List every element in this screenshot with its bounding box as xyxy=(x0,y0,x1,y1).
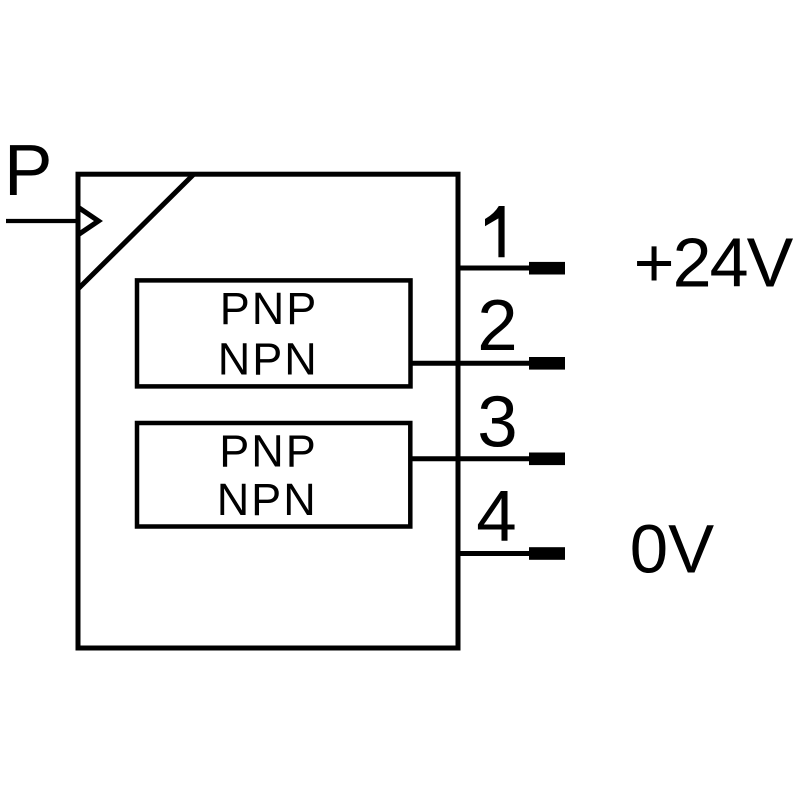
pin 1 number xyxy=(485,206,505,257)
pressure input arrowhead xyxy=(79,208,99,235)
svg-text:4: 4 xyxy=(476,476,516,557)
sensor body outline xyxy=(78,174,458,648)
pin 1 terminal bar xyxy=(529,262,565,275)
switching element box 1 xyxy=(137,280,411,386)
svg-text:PNP: PNP xyxy=(220,283,319,334)
pressure supply wire xyxy=(6,219,76,223)
pin 3 wire xyxy=(411,456,532,461)
svg-text:P: P xyxy=(4,130,52,211)
svg-text:2: 2 xyxy=(477,285,517,366)
pressure sensor diagonal xyxy=(78,174,194,289)
svg-text:+24V: +24V xyxy=(634,224,794,302)
pin 4 wire xyxy=(458,551,531,556)
svg-text:3: 3 xyxy=(477,382,517,463)
svg-text:PNP: PNP xyxy=(219,426,318,477)
pin 2 wire xyxy=(411,361,532,366)
pin 4 terminal bar xyxy=(529,547,565,560)
svg-text:NPN: NPN xyxy=(218,334,319,385)
svg-text:0V: 0V xyxy=(630,510,714,587)
svg-text:NPN: NPN xyxy=(217,474,318,525)
pin 2 terminal bar xyxy=(529,357,565,370)
switching element box 2 xyxy=(137,423,410,527)
pin 3 terminal bar xyxy=(529,453,565,466)
pin 1 wire xyxy=(458,266,531,271)
